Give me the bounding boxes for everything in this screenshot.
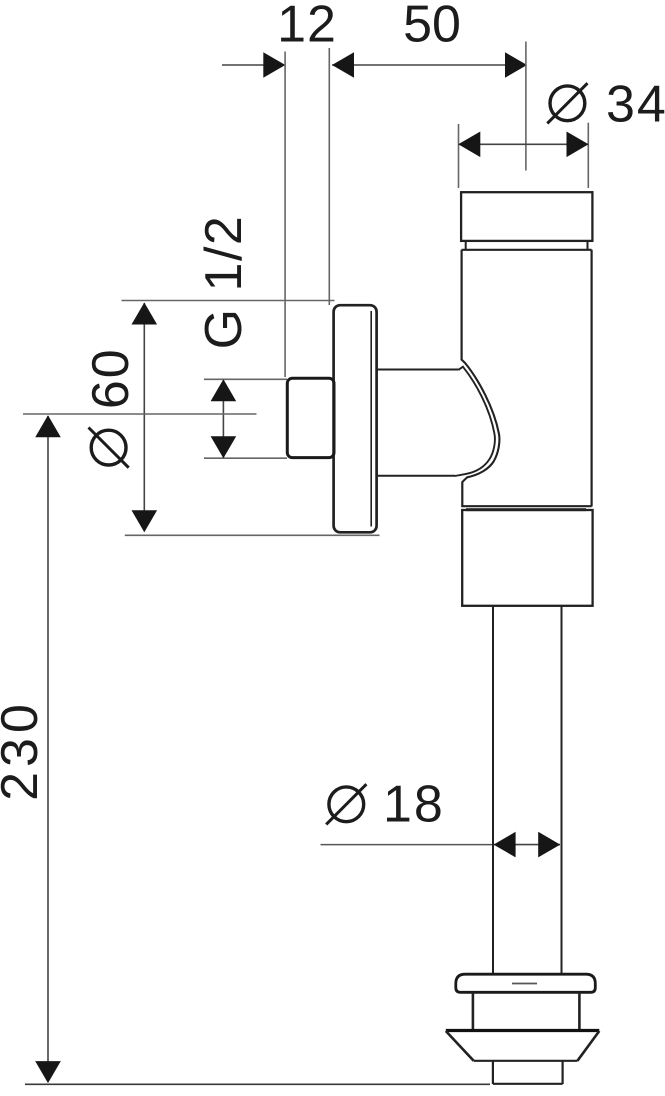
Ø60 extension line top bbox=[122, 300, 335, 302]
G 1/2 nipple bbox=[287, 378, 334, 457]
svg-text:G 1/2: G 1/2 bbox=[195, 215, 253, 350]
dimension label Ø 60 (rotated) bbox=[82, 347, 140, 409]
svg-text:18: 18 bbox=[383, 776, 445, 834]
Ø34 extension line left bbox=[458, 124, 460, 188]
cone right side bbox=[577, 1031, 599, 1061]
dome outer contour bbox=[461, 359, 499, 482]
svg-text:230: 230 bbox=[0, 699, 49, 801]
lower body section bbox=[462, 510, 592, 606]
side pipe bottom line bbox=[377, 475, 455, 477]
230 dim line with arrows bbox=[35, 415, 61, 1083]
G1/2 extension line top bbox=[204, 378, 287, 380]
tail bottom edge bbox=[493, 1083, 563, 1085]
valve cap (top) bbox=[461, 192, 592, 241]
valve body left edge upper bbox=[461, 250, 463, 360]
ring inner highlight line bbox=[512, 983, 537, 985]
cone top thick line bbox=[446, 1029, 600, 1032]
extension line x=329.3 (flange face) bbox=[328, 48, 330, 305]
dimension label G 1/2 (rotated) bbox=[195, 215, 253, 350]
side pipe top line bbox=[377, 369, 459, 371]
Ø34 dim line with outward arrows bbox=[458, 132, 588, 158]
Ø60 dim line with arrows bbox=[132, 303, 158, 533]
fitting nut left wall bbox=[472, 992, 475, 1029]
dimension label 230 (rotated) bbox=[0, 699, 49, 801]
G1/2 extension line bottom bbox=[204, 457, 287, 459]
extension line x=285 (nipple face) bbox=[284, 52, 286, 378]
fitting nut right wall bbox=[578, 992, 581, 1029]
svg-text:60: 60 bbox=[82, 347, 140, 409]
svg-text:34: 34 bbox=[606, 76, 665, 134]
valve body right edge bbox=[590, 250, 592, 507]
outlet tube left wall bbox=[492, 606, 494, 975]
valve neck ring right bbox=[587, 241, 589, 250]
cone bottom edge bbox=[474, 1060, 578, 1062]
dim line 12 left segment with right arrow bbox=[222, 52, 285, 78]
dark seam line bbox=[466, 508, 586, 511]
Ø34 extension line right bbox=[587, 123, 589, 188]
G1/2 dim line with arrows bbox=[211, 379, 237, 458]
valve neck ring left bbox=[465, 241, 467, 250]
valve body top edge bbox=[462, 249, 592, 251]
dome inner contour bbox=[455, 367, 495, 476]
tail right wall bbox=[561, 1061, 563, 1084]
230 reference line bottom bbox=[25, 1083, 490, 1085]
outlet tube right wall bbox=[561, 606, 563, 975]
wall flange (rosette) bbox=[334, 305, 377, 532]
dimension label Ø 34 bbox=[547, 83, 587, 123]
svg-text:50: 50 bbox=[403, 0, 461, 54]
cone left side bbox=[446, 1031, 474, 1061]
dim line 50 with outward arrows bbox=[332, 52, 527, 78]
extension line x=525.9 (valve axis) bbox=[525, 42, 527, 171]
Ø18 leader line bbox=[321, 844, 494, 846]
Ø60 extension line bottom bbox=[125, 534, 380, 536]
svg-text:12: 12 bbox=[277, 0, 337, 54]
valve body bottom edge bbox=[461, 505, 591, 507]
valve body left edge lower bbox=[461, 482, 463, 507]
bottom fitting stadium ring bbox=[456, 974, 596, 992]
230 reference line top bbox=[23, 413, 257, 415]
Ø18 dim arrows bbox=[494, 832, 561, 858]
flange inner edge line bbox=[370, 311, 372, 527]
dimension label Ø 18 bbox=[326, 784, 366, 824]
tail left wall bbox=[492, 1061, 494, 1084]
